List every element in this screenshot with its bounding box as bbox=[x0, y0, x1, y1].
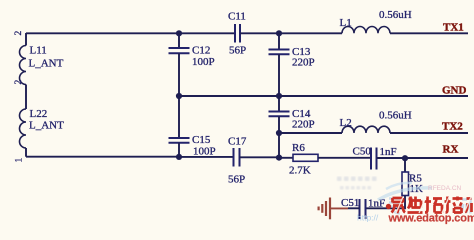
watermark: light blue echo of characters bbox=[389, 198, 471, 214]
junction dot at (405,158) bbox=[402, 155, 408, 161]
svg-text:C17: C17 bbox=[228, 136, 247, 148]
capacitor C11 bbox=[235, 24, 240, 43]
capacitor C13 bbox=[269, 50, 290, 55]
wire: vertical x=279, GND row to C14 bbox=[278, 96, 280, 112]
wire: vertical x=279, C13 to GND row bbox=[278, 54, 280, 96]
inductor L11 coil bbox=[20, 46, 27, 85]
junction dot at (179,157) bbox=[176, 154, 182, 160]
wire: vertical x=179, top wire to C12 bbox=[178, 33, 180, 48]
junction dot at (179,96) bbox=[176, 93, 182, 99]
svg-text:C12: C12 bbox=[192, 45, 210, 57]
wire: vertical x=179, C12 to GND row bbox=[178, 53, 180, 96]
resistor R5 bbox=[402, 172, 409, 196]
svg-text:2: 2 bbox=[14, 31, 24, 36]
svg-text:56P: 56P bbox=[228, 174, 245, 186]
watermark: white sheen streaks over red characters bbox=[396, 197, 471, 213]
svg-text:http://: http:// bbox=[357, 213, 379, 223]
svg-text:L11: L11 bbox=[30, 45, 47, 57]
capacitor C14 bbox=[269, 112, 290, 117]
svg-text:0.56uH: 0.56uH bbox=[379, 110, 412, 122]
wire: TX1 row, corner to C11 left plate bbox=[26, 32, 235, 34]
svg-text:100P: 100P bbox=[192, 56, 215, 68]
svg-text:2: 2 bbox=[14, 80, 24, 85]
capacitor C15 bbox=[169, 138, 190, 143]
svg-text:1: 1 bbox=[15, 158, 25, 163]
wire: RX row, C50 to right end bbox=[377, 157, 469, 159]
svg-text:220P: 220P bbox=[292, 119, 315, 131]
svg-text:L_ANT: L_ANT bbox=[29, 58, 64, 70]
wire: R5 top lead bbox=[404, 158, 406, 172]
svg-text:L1: L1 bbox=[340, 17, 352, 29]
svg-text:C11: C11 bbox=[228, 11, 246, 23]
wire: R5 bottom lead to C51 row bbox=[366, 196, 406, 209]
capacitor C17 bbox=[234, 148, 240, 167]
svg-text:C51: C51 bbox=[341, 197, 359, 209]
wire: TX2 row, L2 to right end bbox=[390, 132, 468, 134]
watermark: faint gray text line 2 bbox=[340, 186, 371, 190]
wire: TX2 row, junction to L2 bbox=[279, 132, 342, 134]
wire: TX1 row, L1 to right end bbox=[390, 32, 468, 34]
wire: left antenna vertical segment (pin2 to L11) bbox=[25, 33, 27, 46]
wire: RX row, C17 to R6 junction bbox=[240, 156, 280, 158]
wire: RX row, junction to C17 bbox=[179, 156, 234, 158]
wire: GND row, from (179,96) to right end bbox=[179, 95, 468, 97]
wire: vertical x=279, TX2 row to RX row bbox=[278, 133, 280, 158]
inductor L22 coil bbox=[20, 109, 27, 148]
wire: L22 bottom to RX row corner bbox=[25, 148, 27, 157]
svg-text:100P: 100P bbox=[193, 146, 216, 158]
wire: vertical x=279, top wire to C13 bbox=[278, 33, 280, 49]
wire: vertical x=179, C15 to RX row bbox=[178, 143, 180, 157]
capacitor C50 bbox=[371, 148, 377, 170]
inductor L2 coil bbox=[342, 126, 390, 133]
junction dot at (279,158) bbox=[276, 155, 282, 161]
svg-text:RX: RX bbox=[443, 144, 459, 156]
svg-text:56P: 56P bbox=[229, 45, 246, 57]
resistor R6 bbox=[279, 154, 371, 161]
svg-text:L2: L2 bbox=[340, 117, 352, 129]
inductor L1 coil bbox=[342, 26, 390, 33]
svg-text:GND: GND bbox=[442, 85, 467, 97]
wire: TX1 row, C11 right plate to L1 bbox=[240, 32, 342, 34]
char pei bbox=[445, 197, 463, 214]
char di bbox=[408, 197, 423, 213]
svg-text:C15: C15 bbox=[192, 134, 211, 146]
svg-text:1nF: 1nF bbox=[380, 146, 397, 158]
svg-text:2.7K: 2.7K bbox=[289, 165, 311, 177]
junction dot at (179,33) bbox=[176, 30, 182, 36]
junction dot at (279,33) bbox=[276, 30, 282, 36]
svg-text:L_ANT: L_ANT bbox=[29, 120, 64, 132]
capacitor C51 bbox=[360, 199, 366, 219]
wire: vertical x=179, GND row to C15 bbox=[178, 96, 180, 138]
char xun bbox=[465, 197, 474, 213]
char tuo bbox=[425, 197, 443, 213]
svg-text:220P: 220P bbox=[292, 57, 315, 69]
svg-text:R6: R6 bbox=[292, 142, 305, 154]
svg-text:0.56uH: 0.56uH bbox=[379, 9, 412, 21]
junction dot at (279,96) bbox=[276, 93, 282, 99]
svg-text:TX2: TX2 bbox=[442, 121, 463, 133]
svg-text:L22: L22 bbox=[30, 108, 48, 120]
char yi bbox=[392, 198, 406, 213]
watermark: light blue swoosh lower bbox=[378, 188, 432, 200]
watermark: light blue swoosh upper bbox=[386, 183, 412, 189]
wire: vertical x=279, C14 to TX2 row bbox=[278, 116, 280, 133]
watermark: red Chinese characters 易迪拓培训 (stylized strokes) bbox=[392, 197, 474, 214]
watermark: red dot of logo bbox=[386, 204, 391, 209]
wire: RX row, corner to C15 junction bbox=[26, 156, 179, 158]
junction dot at (279,133) bbox=[276, 130, 282, 136]
capacitor C12 bbox=[169, 48, 190, 53]
svg-text:C50: C50 bbox=[353, 146, 372, 158]
svg-text:www.edatop.com: www.edatop.com bbox=[388, 213, 474, 225]
watermark: faint gray text line 1 bbox=[337, 177, 377, 182]
wire: C51 left plate to ground stub bbox=[348, 207, 360, 209]
ground symbol (maroon) bbox=[319, 198, 348, 220]
svg-text:TX1: TX1 bbox=[443, 22, 464, 34]
wire: between L11 and L22 bbox=[25, 85, 27, 110]
svg-text:RFEDA.CN: RFEDA.CN bbox=[428, 185, 462, 192]
